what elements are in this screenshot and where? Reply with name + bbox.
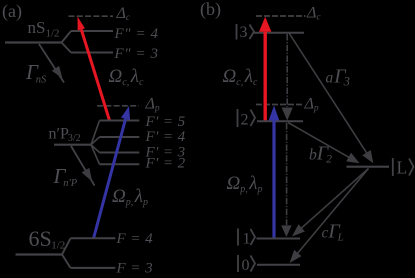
svg-text:1: 1 [243,231,251,248]
label ket |L> [392,158,394,176]
level n'P3/2 stub [54,144,91,146]
wire fan n'P to F'=3 [91,145,100,153]
probe laser arrow blue (a) [94,119,126,239]
decay dash-dot |3> to |2> [286,34,288,107]
svg-text:F″ = 4: F″ = 4 [114,26,159,42]
loss arrow c Gamma_L to |1> [301,169,368,229]
wire fan n'P to F'=5 [91,121,100,145]
wire fork nS to F''=3 [62,43,72,53]
probe laser arrow blue (b) [272,121,275,238]
wire fork 6S to F=4 [62,238,71,254]
svg-text:3: 3 [240,24,248,41]
level Delta_p dashed (b) [256,104,304,106]
decay arrow Gamma_n'P [71,146,95,186]
loss arrow c Gamma_L to |0> [298,169,369,254]
svg-text:F = 3: F = 3 [116,261,154,277]
svg-text:(a): (a) [2,1,22,22]
coupling laser arrow red (a) [81,30,109,121]
decay arrow b Gamma_2 [288,123,349,158]
level |3> [253,32,304,34]
svg-text:F′ = 2: F′ = 2 [145,156,186,172]
wire fork 6S to F=3 [62,255,71,268]
wire fan n'P to F'=4 [91,137,100,145]
level Delta_p dashed (a) [97,105,139,107]
svg-text:F″ = 3: F″ = 3 [114,46,159,62]
level F=3 [71,267,116,269]
level F'=5 [100,120,140,122]
wire fork nS to F''=4 [62,31,72,43]
label ket |3> [236,24,238,40]
level F''=3 [71,52,113,54]
level |2> [257,120,303,122]
svg-text:(b): (b) [200,0,221,20]
coupling laser arrow red (b) [264,32,267,121]
svg-text:F′ = 5: F′ = 5 [145,114,186,130]
wire fan n'P to F'=2 [91,145,100,165]
level Delta_c dashed (a) [69,15,114,17]
svg-text:L: L [397,158,408,178]
decay dash-dot |2> to |1> [286,123,288,225]
level |L> [347,166,390,168]
level F'=4 [100,136,140,138]
level |1> [257,238,301,240]
label ket |1> [237,229,239,246]
label ket |0> [237,255,239,272]
svg-text:2: 2 [241,112,249,129]
svg-text:F = 4: F = 4 [116,231,154,247]
svg-text:0: 0 [242,257,250,274]
decay arrow Gamma_nS [39,44,64,83]
decay arrow a Gamma_3 [289,33,367,153]
svg-text:F′ = 4: F′ = 4 [145,129,186,145]
level F=4 [71,237,116,239]
level |0> [257,264,300,266]
level nS1/2 stub [5,41,62,43]
level F''=4 [71,30,113,32]
label ket |2> [237,109,239,127]
level Delta_c dashed (b) [256,15,306,17]
level F'=2 [100,163,140,165]
level F'=3 [100,152,140,154]
level 6S1/2 stub [16,253,63,255]
